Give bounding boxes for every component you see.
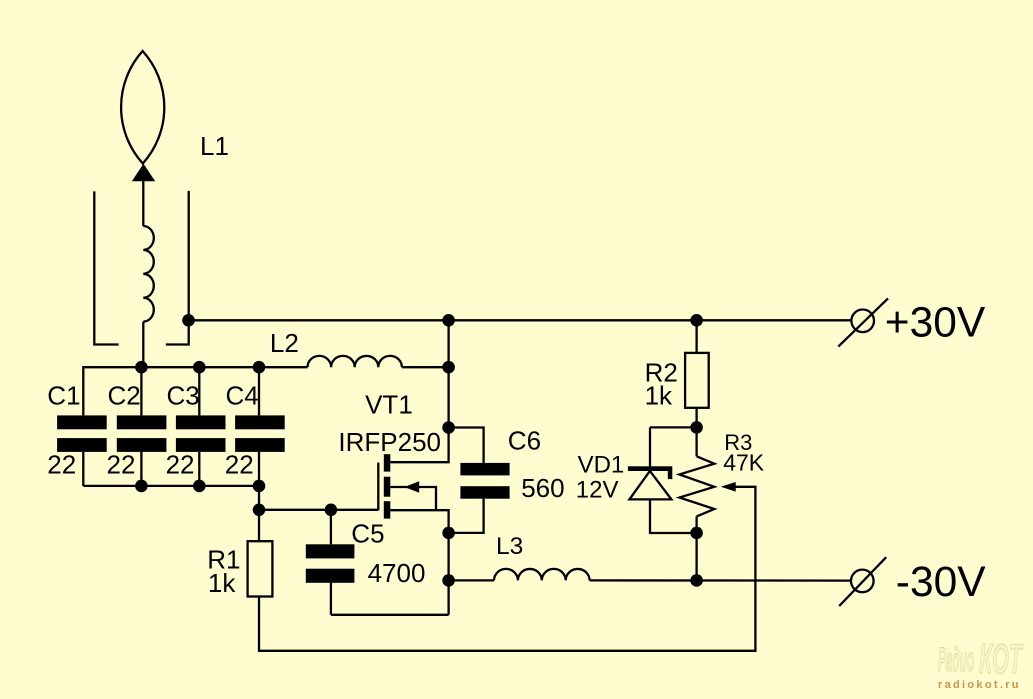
svg-text:L2: L2 (270, 328, 299, 358)
svg-text:-30V: -30V (896, 559, 986, 606)
svg-text:L3: L3 (496, 533, 523, 560)
svg-text:C6: C6 (508, 426, 541, 456)
svg-text:radiokot.ru: radiokot.ru (938, 679, 1019, 691)
svg-text:L1: L1 (200, 131, 229, 161)
svg-text:IRFP250: IRFP250 (338, 427, 441, 457)
svg-text:КОТ: КОТ (979, 635, 1024, 682)
svg-text:+30V: +30V (885, 299, 986, 346)
svg-text:VT1: VT1 (365, 390, 413, 420)
svg-text:C2: C2 (108, 380, 141, 410)
svg-text:C3: C3 (167, 380, 200, 410)
svg-text:4700: 4700 (368, 558, 426, 588)
svg-text:12V: 12V (576, 476, 619, 503)
svg-text:22: 22 (225, 449, 254, 479)
svg-text:22: 22 (166, 449, 195, 479)
svg-text:C4: C4 (226, 380, 259, 410)
svg-text:22: 22 (107, 449, 136, 479)
svg-text:C1: C1 (47, 380, 80, 410)
svg-text:560: 560 (521, 473, 564, 503)
svg-text:Радио: Радио (938, 641, 974, 679)
svg-text:VD1: VD1 (578, 451, 625, 478)
svg-text:47K: 47K (723, 449, 765, 475)
svg-text:1k: 1k (645, 380, 673, 410)
svg-text:1k: 1k (208, 568, 236, 598)
svg-text:22: 22 (47, 449, 76, 479)
svg-text:C5: C5 (351, 519, 384, 549)
